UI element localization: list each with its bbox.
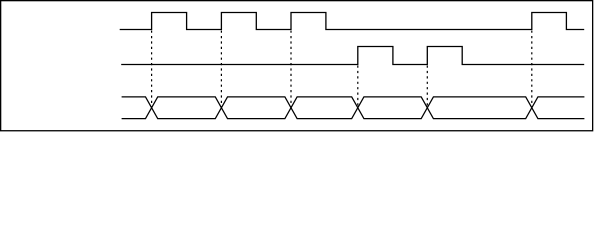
dashed timing line t4 <box>357 66 359 108</box>
signal CLK waveform (top row, pulses at t1,t2,t3,t6) <box>120 13 585 30</box>
dashed timing line t3 <box>290 31 292 108</box>
bus waveform lower zigzag rail with crossovers X1..X6 <box>122 97 585 119</box>
dashed timing line t6 <box>531 31 533 108</box>
dashed timing line t1 <box>151 31 153 108</box>
dashed timing line t2 <box>220 31 222 108</box>
signal STROBE waveform (middle row, pulses at t4,t5) <box>121 47 584 65</box>
bus waveform upper zigzag rail with crossovers X1..X6 <box>122 97 585 119</box>
dashed timing line t5 <box>426 66 428 108</box>
